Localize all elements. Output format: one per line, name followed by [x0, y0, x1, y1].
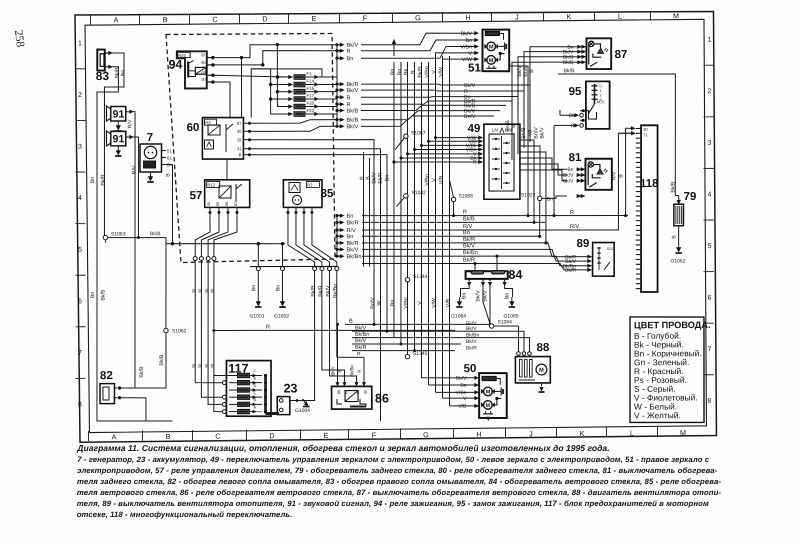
- svg-text:91: 91: [113, 133, 125, 145]
- svg-text:ACC: ACC: [596, 100, 604, 104]
- svg-text:Bn: Bn: [460, 383, 466, 389]
- svg-text:Bk/B: Bk/B: [521, 127, 527, 139]
- svg-text:F: F: [253, 369, 256, 374]
- svg-text:ЦВЕТ ПРОВОДА.: ЦВЕТ ПРОВОДА.: [634, 320, 711, 330]
- battery positive wire to relay box: [288, 271, 316, 401]
- svg-text:L: L: [618, 12, 622, 21]
- svg-text:Bk/R: Bk/R: [463, 236, 475, 243]
- svg-text:R: R: [357, 369, 362, 372]
- svg-text:85: 85: [216, 202, 220, 206]
- svg-text:86: 86: [375, 391, 389, 405]
- component 91 horn upper: [111, 106, 126, 121]
- svg-text:30: 30: [643, 127, 648, 132]
- svg-text:S1344: S1344: [413, 274, 428, 280]
- svg-text:F16: F16: [306, 86, 314, 91]
- svg-text:V: V: [468, 51, 472, 57]
- svg-text:S1063: S1063: [111, 231, 126, 237]
- wire B down from 118: [625, 128, 627, 215]
- wires into 49: [435, 136, 478, 138]
- component 83 washer nozzle heater: [97, 49, 105, 70]
- svg-text:V: V: [431, 70, 437, 74]
- svg-text:R: R: [346, 49, 350, 55]
- svg-text:4: 4: [707, 191, 711, 198]
- svg-text:F: F: [363, 14, 368, 23]
- extra verticals left of centre bundle: [362, 152, 365, 267]
- wire bundle right of 49: [509, 66, 530, 216]
- svg-text:E: E: [323, 431, 328, 440]
- component 91 horn lower: [111, 131, 126, 146]
- svg-text:D: D: [262, 14, 267, 23]
- svg-text:F17: F17: [306, 93, 314, 98]
- svg-text:Bn/V: Bn/V: [464, 114, 476, 120]
- svg-text:R/V: R/V: [570, 223, 580, 230]
- 88 top pins: [517, 352, 521, 356]
- 84 legs to grounds: [468, 279, 470, 282]
- svg-text:7: 7: [707, 346, 711, 353]
- svg-text:Bk/R: Bk/R: [346, 240, 358, 247]
- svg-text:87: 87: [237, 121, 242, 126]
- svg-text:F1: F1: [306, 71, 312, 76]
- wires from fuse exits across to right connectors: [361, 47, 568, 86]
- svg-text:B: B: [165, 432, 170, 441]
- svg-text:R/V: R/V: [127, 119, 133, 128]
- svg-text:S1042: S1042: [411, 190, 426, 196]
- svg-text:V: V: [463, 396, 467, 402]
- wires 84 supply: [474, 264, 476, 272]
- svg-text:30: 30: [197, 288, 202, 293]
- 95 inputs: [580, 110, 584, 112]
- 118 input pins: [631, 127, 635, 130]
- svg-text:R12: R12: [207, 182, 215, 187]
- svg-text:Bk/Bn: Bk/Bn: [346, 253, 361, 260]
- svg-text:Bn: Bn: [251, 285, 257, 292]
- svg-text:Bk/B: Bk/B: [417, 66, 423, 78]
- svg-text:G1001: G1001: [249, 313, 264, 319]
- svg-text:J: J: [515, 13, 519, 22]
- svg-text:M: M: [486, 390, 491, 396]
- wire Bk/B from 87 area to 79: [558, 73, 677, 196]
- svg-text:81: 81: [568, 152, 582, 164]
- svg-text:Bn: Bn: [346, 214, 353, 220]
- feeder verticals into 117: [194, 260, 223, 382]
- splice S1068: [451, 197, 455, 201]
- svg-text:Bk/V: Bk/V: [371, 172, 377, 184]
- left bus vertical joining arrows: [336, 45, 338, 127]
- svg-text:A: A: [111, 432, 116, 441]
- svg-text:RN: RN: [505, 127, 512, 132]
- svg-text:Bk/B: Bk/B: [563, 60, 574, 66]
- 117 row F wire to left: [214, 374, 229, 376]
- svg-text:V/Bn: V/Bn: [460, 45, 472, 51]
- svg-text:Bk/R: Bk/R: [463, 256, 475, 263]
- wire S1063 to S1062 to 82: [107, 237, 167, 328]
- splice S1067: [404, 134, 408, 138]
- svg-text:G1004: G1004: [295, 408, 310, 414]
- svg-text:Bk/R: Bk/R: [346, 81, 358, 88]
- svg-text:95: 95: [568, 86, 582, 98]
- splice S1022: [537, 196, 541, 200]
- svg-text:87: 87: [234, 202, 238, 206]
- svg-text:Bn: Bn: [461, 293, 467, 300]
- svg-text:G1062: G1062: [670, 258, 685, 264]
- svg-text:R/V: R/V: [463, 223, 473, 230]
- svg-text:84: 84: [508, 268, 522, 282]
- svg-text:3: 3: [78, 144, 82, 151]
- svg-text:S1068: S1068: [458, 193, 473, 199]
- svg-text:91: 91: [113, 108, 125, 120]
- svg-text:61: 61: [167, 155, 172, 160]
- bus row R mid: [214, 329, 455, 332]
- svg-text:R: R: [473, 160, 477, 166]
- svg-text:K: K: [579, 429, 584, 438]
- svg-text:L: L: [630, 429, 634, 438]
- svg-text:30: 30: [364, 390, 368, 394]
- svg-text:V/W: V/W: [431, 298, 437, 308]
- svg-text:R: R: [410, 70, 416, 74]
- svg-text:G: G: [423, 430, 429, 439]
- svg-text:30: 30: [210, 363, 215, 368]
- svg-text:Bn: Bn: [90, 292, 96, 299]
- 86 top pins: [336, 382, 339, 386]
- svg-text:Bk/B: Bk/B: [150, 231, 161, 237]
- svg-text:89: 89: [576, 238, 589, 250]
- component 117 engine compartment fuse box: [226, 360, 272, 416]
- svg-text:85: 85: [201, 60, 206, 65]
- svg-text:5: 5: [78, 247, 82, 254]
- svg-text:Bk/V: Bk/V: [346, 246, 358, 253]
- bus row Bk/B: [362, 221, 545, 223]
- 117 to battery thick wire: [265, 412, 279, 415]
- svg-text:V: V: [417, 301, 423, 305]
- main vertical wire bundle centre: [391, 62, 398, 338]
- svg-text:Bk/V: Bk/V: [355, 338, 367, 344]
- svg-text:V/B: V/B: [445, 298, 451, 307]
- svg-text:Bk/Bn: Bk/Bn: [349, 365, 354, 377]
- 89 inputs: [588, 255, 592, 258]
- wire 83 to left bus: [102, 53, 126, 238]
- svg-text:7: 7: [78, 350, 82, 357]
- ground G1004: [297, 399, 301, 401]
- svg-text:87: 87: [615, 49, 628, 61]
- svg-text:Bn: Bn: [463, 230, 470, 236]
- svg-text:8: 8: [707, 398, 711, 405]
- svg-text:5: 5: [708, 243, 712, 250]
- svg-text:71: 71: [643, 132, 648, 137]
- splice S1064: [489, 324, 493, 328]
- svg-text:B: B: [165, 173, 171, 177]
- svg-text:Bk/R: Bk/R: [565, 268, 576, 274]
- bus row Bn: [362, 235, 540, 237]
- svg-text:C: C: [215, 432, 220, 441]
- svg-text:60: 60: [186, 122, 199, 134]
- svg-text:G1002: G1002: [274, 313, 289, 319]
- svg-text:S1062: S1062: [172, 328, 187, 334]
- svg-text:Bk/V: Bk/V: [330, 366, 335, 375]
- S1063 splice: [103, 235, 107, 239]
- svg-text:2: 2: [707, 88, 711, 95]
- svg-text:Bk/Bn: Bk/Bn: [463, 249, 478, 256]
- svg-text:M: M: [486, 403, 491, 409]
- wire generator B+ down: [172, 164, 174, 243]
- svg-text:R: R: [463, 210, 467, 216]
- svg-text:Bk/V: Bk/V: [461, 31, 473, 37]
- svg-text:R: R: [570, 210, 574, 216]
- svg-text:Bk/V: Bk/V: [466, 339, 477, 345]
- bus row R: [362, 214, 628, 217]
- svg-text:15: 15: [237, 137, 242, 142]
- svg-text:H: H: [465, 13, 470, 22]
- svg-text:Bn: Bn: [384, 175, 390, 182]
- svg-text:B: B: [349, 319, 353, 325]
- svg-text:8: 8: [78, 402, 82, 409]
- svg-text:V/Bn: V/Bn: [424, 66, 430, 78]
- svg-text:R3: R3: [205, 120, 211, 125]
- svg-text:31: 31: [237, 146, 242, 151]
- svg-text:R: R: [357, 351, 361, 357]
- lower bus rows B Bk/V Bk/Bn Bk/V Bk/R R: [345, 324, 490, 326]
- svg-text:Bk/V: Bk/V: [563, 178, 574, 184]
- component 118 multi-function switch: [639, 125, 660, 292]
- svg-text:51: 51: [167, 148, 172, 153]
- wires 60 outputs right: [249, 120, 337, 124]
- svg-text:Bk/B: Bk/B: [670, 181, 676, 193]
- svg-text:E: E: [253, 376, 256, 381]
- svg-text:W: W: [376, 301, 382, 306]
- fuse row F1-F22 in engine fuse box: [288, 75, 292, 78]
- svg-text:83: 83: [96, 69, 110, 83]
- relay module dashed enclosure: [166, 33, 335, 262]
- svg-text:R/V: R/V: [611, 171, 617, 180]
- svg-text:Bk/V: Bk/V: [346, 123, 358, 130]
- svg-text:M: M: [673, 11, 679, 20]
- svg-text:Bk/R: Bk/R: [378, 172, 384, 184]
- svg-text:Bk/R: Bk/R: [355, 345, 367, 351]
- svg-text:Bk/B: Bk/B: [346, 107, 358, 114]
- splice S1344: [405, 277, 409, 281]
- svg-text:A: A: [253, 405, 256, 410]
- svg-text:30: 30: [201, 77, 206, 82]
- svg-text:30: 30: [191, 288, 196, 293]
- svg-text:1: 1: [78, 40, 82, 47]
- svg-text:30: 30: [204, 288, 209, 293]
- svg-text:G1064: G1064: [451, 313, 466, 319]
- svg-text:D: D: [269, 431, 274, 440]
- svg-text:49: 49: [468, 123, 481, 135]
- junction dots: [372, 323, 375, 326]
- svg-text:Bk/B: Bk/B: [100, 289, 106, 301]
- svg-text:85: 85: [344, 390, 348, 394]
- svg-text:V/Bn: V/Bn: [403, 297, 409, 309]
- svg-text:Bk/Bn: Bk/Bn: [333, 284, 339, 298]
- wires 91 to lower area: [132, 112, 166, 389]
- svg-text:F20: F20: [306, 101, 314, 106]
- svg-text:B: B: [671, 235, 677, 239]
- svg-text:R2: R2: [307, 182, 313, 187]
- svg-text:Bn: Bn: [397, 69, 403, 76]
- 117 left side pins: [222, 381, 226, 385]
- svg-text:Bn: Bn: [504, 293, 510, 300]
- svg-text:B: B: [618, 174, 624, 178]
- fuse supply verticals: [277, 47, 289, 106]
- svg-text:79: 79: [684, 191, 697, 203]
- svg-text:V - Желтый.: V - Желтый.: [634, 410, 681, 420]
- svg-text:Bn: Bn: [466, 38, 473, 44]
- svg-text:B: B: [529, 69, 535, 73]
- svg-text:C: C: [212, 15, 217, 24]
- svg-text:R/V: R/V: [131, 165, 137, 174]
- 49 input labels: [478, 136, 482, 139]
- svg-text:B: B: [162, 15, 167, 24]
- svg-text:Bk/V: Bk/V: [346, 42, 358, 49]
- svg-text:V/W: V/W: [438, 67, 444, 77]
- svg-text:V/B: V/B: [438, 175, 444, 184]
- svg-text:Bn/V: Bn/V: [370, 297, 376, 309]
- svg-text:Bk: Bk: [403, 69, 409, 76]
- svg-text:Bk/B: Bk/B: [100, 174, 106, 186]
- splice S1345: [405, 354, 409, 358]
- svg-text:Bn: Bn: [346, 56, 353, 62]
- relay module internal bottom bus: [166, 243, 285, 244]
- wires 85 down to connector circles: [288, 212, 315, 266]
- vertical continuations between 51 and 49: [529, 85, 530, 142]
- 117 internal supply bus thick: [264, 375, 268, 413]
- splice S1042: [404, 194, 408, 198]
- svg-text:Bk/R: Bk/R: [466, 345, 477, 351]
- svg-text:51: 51: [468, 62, 482, 74]
- svg-text:2: 2: [78, 92, 82, 99]
- svg-text:R/V: R/V: [346, 227, 356, 234]
- svg-text:82: 82: [100, 370, 113, 382]
- wire to 81 via S1022: [542, 196, 567, 199]
- svg-text:258: 258: [12, 29, 26, 48]
- svg-text:B: B: [239, 152, 242, 157]
- svg-text:F14: F14: [306, 79, 314, 84]
- 51 input labels: [474, 31, 478, 34]
- svg-text:86: 86: [225, 202, 229, 206]
- svg-text:94: 94: [168, 58, 182, 72]
- svg-text:Bk/R: Bk/R: [346, 219, 358, 226]
- wires top three to mirror 51: [361, 33, 474, 45]
- svg-text:57: 57: [189, 190, 202, 202]
- svg-text:Bk/Bn: Bk/Bn: [355, 332, 369, 338]
- svg-text:Bk/B: Bk/B: [139, 366, 145, 378]
- svg-text:Bn: Bn: [90, 177, 96, 184]
- wire colour legend: [629, 317, 705, 423]
- svg-text:6: 6: [708, 295, 712, 302]
- svg-text:7: 7: [147, 132, 154, 144]
- wire 82 lower: [119, 398, 146, 422]
- 88 ground: [540, 383, 542, 386]
- bus row Bk/R to 89: [362, 242, 568, 258]
- svg-text:B: B: [337, 370, 342, 373]
- connector arrows with wire colour labels, left column: [335, 43, 338, 46]
- svg-text:B: B: [346, 95, 350, 101]
- svg-text:87: 87: [201, 52, 206, 57]
- svg-text:Bk/B: Bk/B: [463, 215, 475, 222]
- svg-text:23: 23: [283, 381, 297, 395]
- wires 94 outputs: [213, 44, 337, 58]
- svg-text:Bk/V: Bk/V: [466, 326, 477, 332]
- wire F1 to relay 60: [251, 68, 323, 117]
- bus row Bk/R lower to 89: [362, 262, 568, 271]
- svg-text:R: R: [346, 102, 350, 108]
- svg-text:M: M: [680, 428, 686, 437]
- bus row Bk/Bn to 89: [362, 255, 568, 267]
- wires to 95: [560, 114, 567, 116]
- svg-text:Bk/R: Bk/R: [318, 285, 324, 297]
- svg-text:Bk/V: Bk/V: [475, 290, 481, 302]
- svg-text:S1067: S1067: [411, 130, 426, 136]
- svg-text:E: E: [311, 14, 316, 23]
- svg-text:V/Bn: V/Bn: [424, 174, 430, 186]
- svg-text:F22: F22: [306, 108, 314, 113]
- svg-text:D: D: [253, 383, 256, 388]
- 84 legs to splice S1064: [483, 286, 490, 326]
- 87 inputs: [582, 45, 586, 48]
- svg-text:Bk/V: Bk/V: [325, 285, 331, 297]
- svg-text:86: 86: [337, 390, 341, 394]
- svg-text:30: 30: [210, 288, 215, 293]
- svg-text:Bk/Bn: Bk/Bn: [466, 332, 480, 338]
- svg-text:M: M: [489, 58, 494, 64]
- svg-text:Bk/B: Bk/B: [563, 68, 575, 74]
- svg-text:30: 30: [207, 202, 211, 206]
- svg-text:B: B: [253, 397, 256, 402]
- svg-text:M: M: [489, 44, 494, 50]
- wire 57 to 60: [226, 159, 229, 180]
- svg-text:Bn: Bn: [275, 285, 281, 292]
- svg-text:C: C: [253, 390, 256, 395]
- svg-text:Bn: Bn: [346, 234, 353, 240]
- wires down to 50 mirror: [421, 377, 455, 379]
- 81 inputs: [581, 168, 585, 171]
- svg-text:30: 30: [204, 363, 209, 368]
- svg-text:K: K: [566, 12, 571, 21]
- svg-text:Bk: Bk: [569, 113, 575, 119]
- svg-text:Bk/V: Bk/V: [346, 87, 358, 94]
- svg-text:J: J: [529, 429, 533, 438]
- 50 input labels: [475, 376, 479, 379]
- svg-text:Bk/B: Bk/B: [159, 354, 165, 366]
- svg-text:88: 88: [537, 342, 551, 354]
- verticals from relay module to grounds G1001 G1002: [257, 244, 260, 267]
- svg-text:R: R: [266, 325, 270, 331]
- svg-text:Bn: Bn: [390, 69, 396, 76]
- svg-text:Bk/B: Bk/B: [346, 117, 358, 124]
- svg-text:R: R: [571, 123, 575, 129]
- svg-text:30: 30: [237, 129, 242, 134]
- svg-text:V: V: [431, 178, 437, 182]
- svg-text:6: 6: [78, 298, 82, 305]
- border frame: [75, 11, 719, 442]
- svg-text:G: G: [415, 13, 421, 22]
- svg-text:30: 30: [197, 363, 202, 368]
- relay module bottom connector row right part: [250, 265, 337, 268]
- svg-text:A: A: [113, 15, 118, 24]
- svg-text:R26: R26: [178, 53, 186, 58]
- svg-text:87: 87: [356, 390, 360, 394]
- svg-text:30: 30: [191, 363, 196, 368]
- up arrow feed: [393, 44, 395, 56]
- 86 feeder verticals: [337, 324, 338, 382]
- wire 82 upper-left vertical continuation: [146, 420, 173, 422]
- bus row Bk/V to 89: [362, 248, 568, 262]
- svg-text:3: 3: [707, 140, 711, 147]
- svg-text:0123: 0123: [607, 247, 615, 251]
- svg-text:M: M: [539, 368, 544, 374]
- svg-text:1: 1: [708, 37, 712, 44]
- svg-text:Bk/V: Bk/V: [456, 376, 467, 382]
